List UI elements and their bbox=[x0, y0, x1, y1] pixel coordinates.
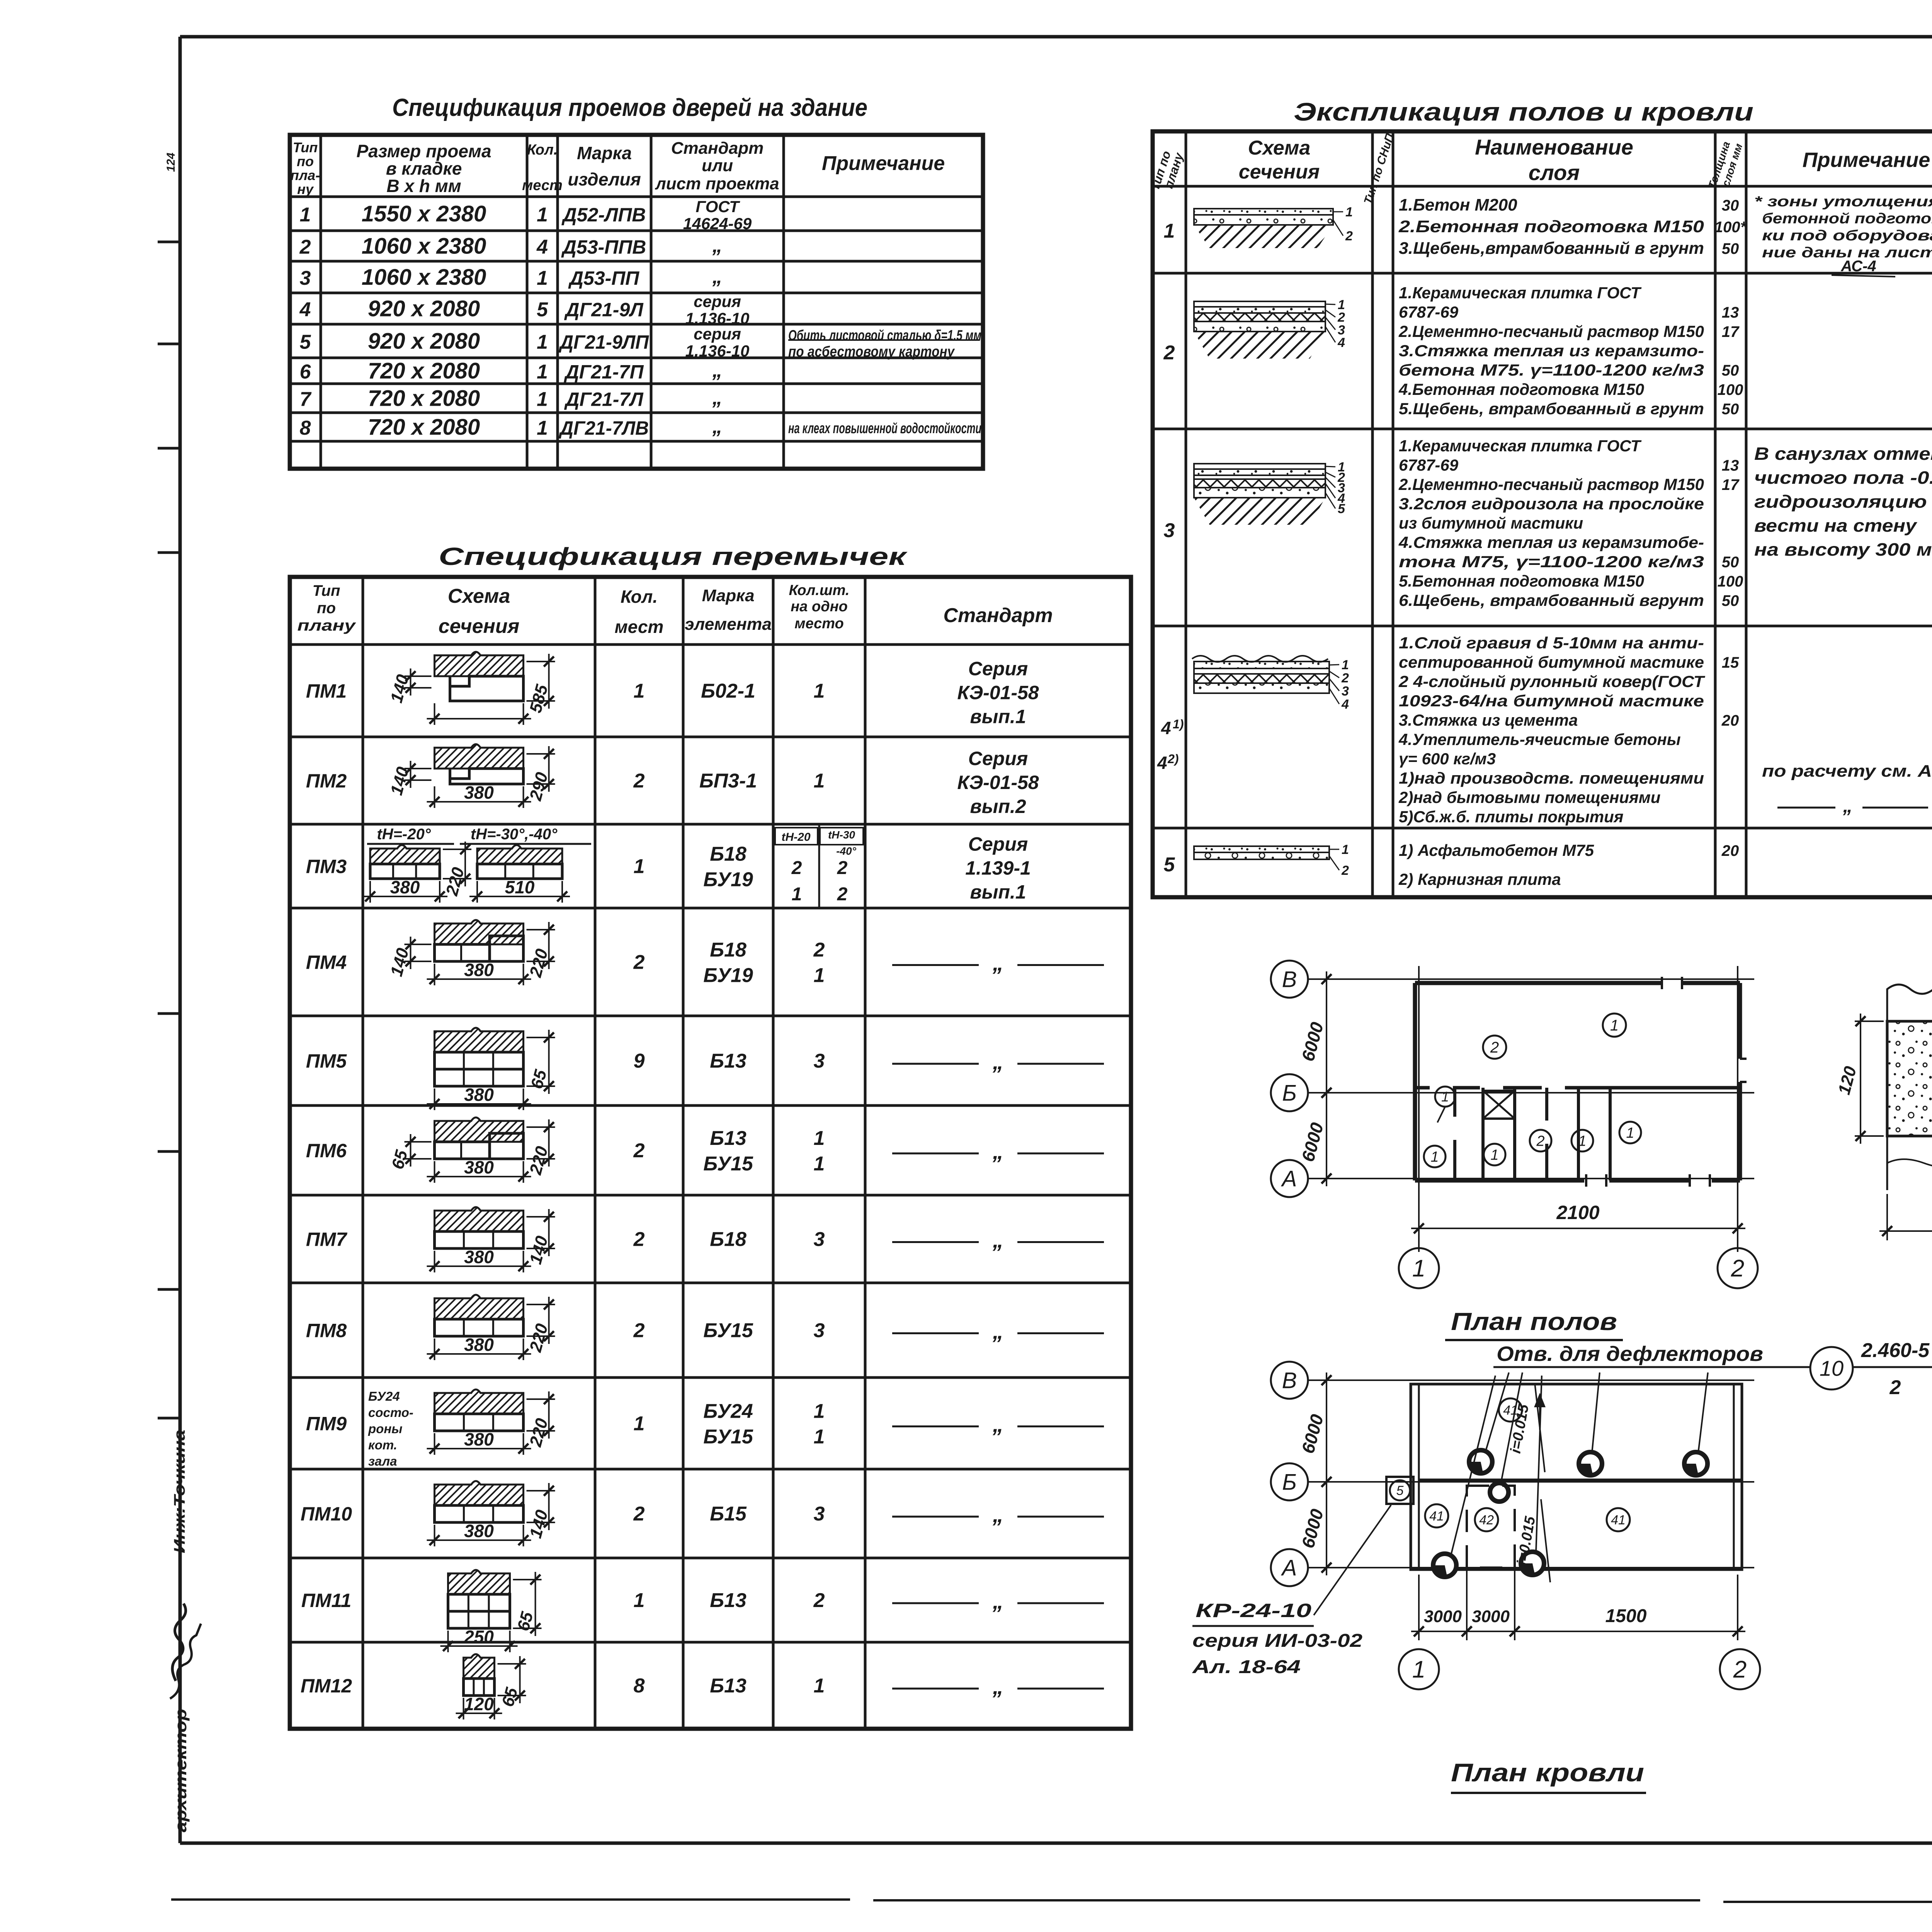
svg-text:1: 1 bbox=[1610, 1017, 1619, 1034]
svg-text:30: 30 bbox=[1722, 197, 1739, 214]
svg-text:Наименование: Наименование bbox=[1475, 135, 1633, 159]
svg-text:Стандарт: Стандарт bbox=[943, 604, 1053, 627]
svg-text:1: 1 bbox=[1164, 220, 1175, 242]
svg-text:6.Щебень, втрамбованный вгрунт: 6.Щебень, втрамбованный вгрунт bbox=[1399, 591, 1704, 609]
svg-text:ПМ2: ПМ2 bbox=[306, 770, 347, 792]
svg-text:ДГ21-7Л: ДГ21-7Л bbox=[564, 389, 644, 410]
svg-text:1) Асфальтобетон М75: 1) Асфальтобетон М75 bbox=[1399, 841, 1594, 859]
svg-text:3.2слоя гидроизола на прослойк: 3.2слоя гидроизола на прослойке bbox=[1399, 495, 1704, 513]
svg-text:ПМ6: ПМ6 bbox=[306, 1140, 347, 1162]
svg-text:50: 50 bbox=[1722, 554, 1739, 571]
floor plan partitions bbox=[1453, 1088, 1456, 1117]
svg-text:510: 510 bbox=[505, 877, 535, 897]
row 4 scheme bbox=[1192, 656, 1328, 662]
svg-text:15: 15 bbox=[1722, 654, 1739, 671]
svg-text:План полов: План полов bbox=[1451, 1308, 1617, 1335]
svg-text:9: 9 bbox=[634, 1050, 645, 1072]
svg-text:50: 50 bbox=[1722, 240, 1739, 257]
svg-text:20: 20 bbox=[1721, 712, 1739, 729]
svg-text:tН=-30°,-40°: tН=-30°,-40° bbox=[471, 826, 558, 843]
svg-text:мест: мест bbox=[615, 617, 664, 637]
svg-text:1: 1 bbox=[1412, 1656, 1425, 1683]
svg-text:3: 3 bbox=[300, 267, 311, 289]
svg-text:по: по bbox=[297, 153, 314, 169]
svg-text:5: 5 bbox=[1396, 1483, 1404, 1498]
svg-text:Д53-ППВ: Д53-ППВ bbox=[561, 236, 646, 258]
svg-text:„: „ bbox=[992, 1319, 1003, 1344]
svg-text:„: „ bbox=[712, 387, 723, 409]
svg-text:кот.: кот. bbox=[368, 1438, 397, 1452]
svg-text:чистого пола -0.020: чистого пола -0.020 bbox=[1754, 468, 1932, 488]
svg-text:2.Цементно-песчаный раствор М1: 2.Цементно-песчаный раствор М150 bbox=[1398, 322, 1704, 340]
svg-text:Схема: Схема bbox=[448, 585, 510, 607]
svg-text:1: 1 bbox=[814, 1127, 825, 1150]
PM3 qty sub-cells bbox=[818, 824, 820, 908]
svg-text:2.Цементно-песчаный раствор М1: 2.Цементно-песчаный раствор М150 bbox=[1398, 475, 1704, 493]
svg-text:1.Керамическая плитка ГОСТ: 1.Керамическая плитка ГОСТ bbox=[1399, 284, 1642, 302]
floor plan axis circles bbox=[1271, 961, 1308, 998]
svg-text:3.Стяжка из цемента: 3.Стяжка из цемента bbox=[1399, 711, 1578, 729]
svg-text:План кровли: План кровли bbox=[1451, 1758, 1644, 1787]
svg-text:бетонной подготов-: бетонной подготов- bbox=[1762, 211, 1932, 227]
svg-text:ГОСТ: ГОСТ bbox=[696, 197, 740, 216]
svg-text:Серия: Серия bbox=[968, 833, 1028, 855]
roof plan axis circles bbox=[1271, 1362, 1308, 1399]
svg-text:Примечание: Примечание bbox=[1803, 148, 1930, 172]
svg-text:50: 50 bbox=[1722, 401, 1739, 418]
svg-text:Отв. для дефлекторов: Отв. для дефлекторов bbox=[1497, 1342, 1763, 1366]
svg-text:3: 3 bbox=[814, 1320, 825, 1342]
svg-text:γ= 600 кг/м3: γ= 600 кг/м3 bbox=[1399, 750, 1496, 768]
svg-text:13: 13 bbox=[1722, 457, 1739, 474]
floor plan shaft cross bbox=[1483, 1091, 1515, 1119]
svg-text:Кол.: Кол. bbox=[527, 142, 558, 158]
svg-text:изделия: изделия bbox=[568, 169, 641, 189]
svg-text:720 х 2080: 720 х 2080 bbox=[368, 415, 480, 440]
svg-text:2: 2 bbox=[1163, 342, 1175, 364]
svg-text:на клеах повышенной водостойко: на клеах повышенной водостойкости bbox=[788, 420, 981, 437]
svg-text:В: В bbox=[1282, 1368, 1297, 1393]
svg-text:Кол.: Кол. bbox=[621, 587, 658, 607]
svg-text:Тип: Тип bbox=[313, 582, 340, 599]
left margin binding ticks bbox=[158, 241, 180, 243]
svg-text:ПМ5: ПМ5 bbox=[306, 1050, 347, 1072]
door row5 note underline bbox=[788, 339, 980, 341]
svg-text:1: 1 bbox=[634, 1413, 645, 1435]
svg-text:ПМ8: ПМ8 bbox=[306, 1320, 347, 1342]
svg-text:1060 х 2380: 1060 х 2380 bbox=[362, 265, 486, 290]
roof plan 5 block bbox=[1386, 1477, 1413, 1504]
svg-text:ДГ21-9Л: ДГ21-9Л bbox=[564, 299, 644, 321]
svg-text:14624-69: 14624-69 bbox=[683, 214, 752, 233]
svg-text:1: 1 bbox=[537, 417, 548, 439]
svg-text:6787-69: 6787-69 bbox=[1399, 303, 1459, 321]
svg-text:380: 380 bbox=[464, 960, 494, 980]
svg-text:мест: мест bbox=[522, 177, 563, 194]
svg-text:380: 380 bbox=[464, 782, 494, 803]
svg-text:на одно: на одно bbox=[791, 599, 848, 615]
svg-text:„: „ bbox=[992, 951, 1003, 975]
svg-text:слоя: слоя bbox=[1529, 160, 1580, 185]
svg-text:ДГ21-9ЛП: ДГ21-9ЛП bbox=[558, 332, 649, 353]
svg-text:1: 1 bbox=[634, 855, 645, 878]
svg-text:1: 1 bbox=[1626, 1125, 1634, 1141]
svg-text:Схема: Схема bbox=[1248, 137, 1310, 159]
svg-text:3: 3 bbox=[1164, 519, 1175, 542]
svg-text:124: 124 bbox=[165, 153, 177, 172]
roof plan outline bbox=[1411, 1384, 1742, 1570]
svg-text:БУ15: БУ15 bbox=[703, 1153, 753, 1175]
svg-text:БУ15: БУ15 bbox=[703, 1320, 753, 1342]
svg-text:5: 5 bbox=[537, 299, 548, 321]
svg-text:3: 3 bbox=[814, 1050, 825, 1072]
svg-text:2: 2 bbox=[299, 236, 311, 259]
svg-text:2.460-5: 2.460-5 bbox=[1861, 1339, 1930, 1362]
svg-text:Кол.шт.: Кол.шт. bbox=[789, 582, 850, 599]
svg-text:ДГ21-7П: ДГ21-7П bbox=[564, 361, 644, 383]
roof plan left dims 6000 bbox=[1326, 1372, 1327, 1490]
svg-text:50: 50 bbox=[1722, 592, 1739, 609]
svg-text:920 х 2080: 920 х 2080 bbox=[368, 329, 480, 354]
svg-text:Д53-ПП: Д53-ПП bbox=[568, 267, 639, 289]
svg-text:4: 4 bbox=[1341, 697, 1349, 712]
svg-text:1.136-10: 1.136-10 bbox=[685, 342, 750, 360]
svg-text:по: по bbox=[317, 600, 336, 617]
svg-text:920 х 2080: 920 х 2080 bbox=[368, 296, 480, 321]
svg-text:Б13: Б13 bbox=[710, 1675, 747, 1697]
detail 2 bottom break bbox=[1887, 1136, 1932, 1190]
svg-text:БУ24: БУ24 bbox=[703, 1400, 753, 1423]
circle 10 and 2.460-5 bbox=[1766, 1366, 1810, 1368]
svg-text:Б18: Б18 bbox=[710, 1228, 747, 1251]
svg-text:1: 1 bbox=[814, 1675, 825, 1697]
svg-text:1: 1 bbox=[634, 680, 645, 702]
svg-text:* зоны утолщения: * зоны утолщения bbox=[1754, 194, 1932, 210]
svg-text:Б13: Б13 bbox=[710, 1127, 747, 1150]
svg-text:ПМ12: ПМ12 bbox=[301, 1675, 352, 1697]
svg-text:2: 2 bbox=[633, 1503, 645, 1525]
svg-text:100: 100 bbox=[1718, 381, 1743, 398]
svg-text:380: 380 bbox=[390, 877, 420, 897]
svg-text:1: 1 bbox=[1430, 1149, 1439, 1165]
svg-text:380: 380 bbox=[464, 1157, 494, 1177]
svg-text:1: 1 bbox=[814, 1426, 825, 1448]
svg-text:БУ24: БУ24 bbox=[368, 1389, 400, 1403]
svg-text:или: или bbox=[702, 156, 733, 175]
svg-text:5: 5 bbox=[300, 331, 311, 354]
svg-text:1: 1 bbox=[537, 204, 548, 226]
svg-text:1.Керамическая плитка ГОСТ: 1.Керамическая плитка ГОСТ bbox=[1399, 437, 1642, 455]
svg-text:элемента: элемента bbox=[685, 615, 772, 634]
svg-text:1060 х 2380: 1060 х 2380 bbox=[362, 234, 486, 259]
svg-text:17: 17 bbox=[1722, 476, 1740, 493]
svg-text:КЭ-01-58: КЭ-01-58 bbox=[957, 682, 1039, 704]
svg-text:10923-64/на битумной мастике: 10923-64/на битумной мастике bbox=[1399, 692, 1704, 710]
svg-text:сечения: сечения bbox=[1239, 161, 1320, 183]
svg-text:1550 х 2380: 1550 х 2380 bbox=[362, 201, 486, 226]
svg-text:5: 5 bbox=[1164, 854, 1175, 876]
svg-text:2: 2 bbox=[1731, 1255, 1744, 1282]
svg-text:1: 1 bbox=[537, 331, 548, 354]
svg-text:лист проекта: лист проекта bbox=[655, 174, 779, 193]
svg-text:1: 1 bbox=[634, 1589, 645, 1612]
svg-text:Б: Б bbox=[1282, 1469, 1297, 1495]
svg-text:серия: серия bbox=[694, 293, 741, 311]
svg-text:А: А bbox=[1281, 1555, 1297, 1580]
svg-text:Б18: Б18 bbox=[710, 843, 747, 866]
svg-text:42: 42 bbox=[1479, 1513, 1494, 1527]
svg-text:БУ19: БУ19 bbox=[703, 869, 753, 891]
svg-text:1: 1 bbox=[1342, 658, 1349, 672]
door opening ticks bbox=[1661, 977, 1663, 989]
svg-text:2: 2 bbox=[633, 1228, 645, 1251]
svg-text:Б02-1: Б02-1 bbox=[701, 680, 755, 702]
svg-text:1)над производств. помещениями: 1)над производств. помещениями bbox=[1399, 769, 1704, 787]
svg-text:2: 2 bbox=[837, 884, 848, 905]
svg-text:4: 4 bbox=[1161, 718, 1171, 738]
svg-text:4: 4 bbox=[1337, 335, 1345, 350]
svg-text:септированной битумной мастике: септированной битумной мастике bbox=[1399, 653, 1704, 671]
svg-text:1500: 1500 bbox=[1605, 1606, 1647, 1626]
svg-text:„: „ bbox=[712, 359, 723, 382]
svg-text:tН=-20°: tН=-20° bbox=[377, 826, 431, 843]
roof plan deflector circles bbox=[1469, 1450, 1492, 1473]
svg-text:17: 17 bbox=[1722, 323, 1740, 340]
svg-text:„: „ bbox=[992, 1589, 1003, 1613]
svg-text:„: „ bbox=[992, 1049, 1003, 1074]
svg-text:2: 2 bbox=[633, 770, 645, 792]
svg-text:2: 2 bbox=[1889, 1376, 1901, 1399]
svg-text:2: 2 bbox=[1345, 229, 1353, 243]
svg-text:720 х 2080: 720 х 2080 bbox=[368, 359, 480, 384]
svg-text:1: 1 bbox=[300, 204, 311, 226]
svg-text:4: 4 bbox=[1157, 753, 1167, 773]
svg-text:tН-20: tН-20 bbox=[781, 831, 810, 844]
svg-text:5.Щебень, втрамбованный в грун: 5.Щебень, втрамбованный в грунт bbox=[1399, 400, 1704, 418]
svg-text:3000: 3000 bbox=[1424, 1607, 1462, 1626]
svg-text:ПМ9: ПМ9 bbox=[306, 1413, 347, 1435]
svg-text:Спецификация перемычек: Спецификация перемычек bbox=[439, 543, 908, 570]
svg-text:3.Стяжка теплая из керамзито-: 3.Стяжка теплая из керамзито- bbox=[1399, 342, 1704, 360]
svg-text:2: 2 bbox=[1341, 671, 1349, 685]
svg-text:2100: 2100 bbox=[1556, 1202, 1599, 1223]
svg-text:2: 2 bbox=[633, 1139, 645, 1162]
svg-text:ки под оборудова-: ки под оборудова- bbox=[1762, 228, 1932, 244]
svg-text:4: 4 bbox=[299, 299, 311, 321]
svg-text:4.Утеплитель-ячеистые бетоны: 4.Утеплитель-ячеистые бетоны bbox=[1398, 730, 1681, 748]
svg-text:по расчету см. АС-1: по расчету см. АС-1 bbox=[1762, 762, 1932, 781]
explication table grid bbox=[1153, 131, 1932, 897]
svg-text:2: 2 bbox=[1733, 1656, 1747, 1683]
svg-text:Б15: Б15 bbox=[710, 1503, 747, 1525]
svg-text:Примечание: Примечание bbox=[822, 152, 945, 175]
svg-text:АС-4: АС-4 bbox=[1840, 258, 1876, 275]
svg-text:1: 1 bbox=[1342, 842, 1349, 857]
svg-text:В: В bbox=[1282, 967, 1297, 992]
svg-text:1: 1 bbox=[1412, 1255, 1425, 1282]
svg-text:вести на стену: вести на стену bbox=[1754, 515, 1918, 536]
svg-text:бетона М75. γ=1100-1200 кг/м3: бетона М75. γ=1100-1200 кг/м3 bbox=[1399, 361, 1704, 379]
svg-text:2)над бытовыми помещениями: 2)над бытовыми помещениями bbox=[1398, 788, 1660, 806]
svg-text:„: „ bbox=[712, 265, 723, 288]
svg-text:сечения: сечения bbox=[439, 615, 520, 638]
svg-text:роны: роны bbox=[368, 1422, 402, 1436]
detail 2 dims bbox=[1855, 1020, 1884, 1022]
svg-text:20: 20 bbox=[1721, 842, 1739, 859]
svg-text:380: 380 bbox=[464, 1335, 494, 1355]
svg-text:1: 1 bbox=[814, 770, 825, 792]
svg-text:1.Бетон М200: 1.Бетон М200 bbox=[1399, 196, 1517, 214]
svg-text:по асбестовому картону: по асбестовому картону bbox=[788, 344, 955, 360]
svg-text:-40°: -40° bbox=[836, 845, 856, 857]
svg-text:10: 10 bbox=[1820, 1356, 1844, 1381]
svg-text:Б13: Б13 bbox=[710, 1589, 747, 1612]
svg-text:380: 380 bbox=[464, 1085, 494, 1105]
svg-text:БУ15: БУ15 bbox=[703, 1426, 753, 1448]
signatures bbox=[172, 1604, 186, 1681]
svg-text:13: 13 bbox=[1722, 304, 1739, 321]
svg-text:1: 1 bbox=[1441, 1089, 1449, 1105]
detail 2: concrete block with vent opening bbox=[1887, 985, 1932, 1021]
svg-text:1: 1 bbox=[537, 361, 548, 383]
svg-text:6787-69: 6787-69 bbox=[1399, 456, 1459, 474]
svg-text:„: „ bbox=[712, 415, 723, 438]
svg-text:1: 1 bbox=[814, 680, 825, 702]
svg-text:2: 2 bbox=[1536, 1133, 1544, 1149]
svg-text:41: 41 bbox=[1429, 1509, 1444, 1524]
svg-text:3.Щебень,втрамбованный в грунт: 3.Щебень,втрамбованный в грунт bbox=[1399, 239, 1704, 258]
svg-text:380: 380 bbox=[464, 1429, 494, 1449]
svg-text:пла-: пла- bbox=[291, 167, 320, 183]
svg-text:1: 1 bbox=[814, 964, 825, 987]
svg-text:ПМ1: ПМ1 bbox=[306, 680, 347, 702]
svg-text:100: 100 bbox=[1718, 573, 1743, 590]
svg-text:2: 2 bbox=[791, 858, 802, 878]
bottom paper edge dashed line bbox=[171, 1898, 850, 1901]
svg-text:вып.1: вып.1 bbox=[970, 881, 1026, 903]
svg-text:„: „ bbox=[712, 235, 723, 257]
svg-text:ПМ11: ПМ11 bbox=[301, 1590, 352, 1611]
svg-text:Экспликация полов и кровли: Экспликация полов и кровли bbox=[1294, 97, 1753, 126]
svg-text:вып.1: вып.1 bbox=[970, 706, 1026, 728]
svg-text:Спецификация проемов дверей на: Спецификация проемов дверей на здание bbox=[392, 94, 867, 121]
svg-text:Б: Б bbox=[1282, 1080, 1297, 1105]
svg-text:120: 120 bbox=[464, 1694, 494, 1714]
svg-text:из битумной мастики: из битумной мастики bbox=[1399, 514, 1583, 532]
svg-text:гидроизоляцию за-: гидроизоляцию за- bbox=[1754, 492, 1932, 512]
svg-text:5: 5 bbox=[1338, 502, 1345, 516]
svg-text:ПМ10: ПМ10 bbox=[301, 1503, 352, 1525]
svg-text:ДГ21-7ЛВ: ДГ21-7ЛВ bbox=[558, 417, 649, 439]
svg-text:1: 1 bbox=[1578, 1133, 1586, 1149]
svg-text:4.Бетонная подготовка М150: 4.Бетонная подготовка М150 bbox=[1398, 380, 1644, 398]
roof plan circled 41 42 bbox=[1499, 1398, 1522, 1422]
svg-text:7: 7 bbox=[300, 388, 312, 411]
svg-text:3: 3 bbox=[814, 1228, 825, 1251]
svg-text:3000: 3000 bbox=[1472, 1607, 1510, 1626]
svg-text:Ал. 18-64: Ал. 18-64 bbox=[1192, 1657, 1301, 1677]
svg-text:состо-: состо- bbox=[368, 1405, 413, 1420]
svg-text:2.Бетонная подготовка М150: 2.Бетонная подготовка М150 bbox=[1398, 217, 1704, 236]
roof plan bottom dims bbox=[1418, 1575, 1420, 1640]
floor plan bottom dim 2100 bbox=[1418, 1186, 1420, 1236]
svg-text:КЭ-01-58: КЭ-01-58 bbox=[957, 772, 1039, 793]
svg-text:4: 4 bbox=[536, 236, 548, 259]
svg-text:1): 1) bbox=[1173, 717, 1184, 731]
sheet frame border bbox=[180, 35, 1932, 39]
svg-text:ПМ3: ПМ3 bbox=[306, 856, 347, 878]
lintel table grid bbox=[290, 577, 1131, 1729]
svg-text:БУ19: БУ19 bbox=[703, 964, 753, 987]
svg-text:Обить листовой сталью δ=1.5 мм: Обить листовой сталью δ=1.5 мм bbox=[788, 328, 981, 344]
svg-text:Марка: Марка bbox=[577, 143, 632, 163]
svg-text:ПМ7: ПМ7 bbox=[306, 1229, 348, 1250]
floor plan axis lines bbox=[1308, 978, 1754, 980]
svg-text:2: 2 bbox=[837, 858, 848, 878]
svg-text:„: „ bbox=[992, 1502, 1003, 1527]
svg-text:БП3-1: БП3-1 bbox=[699, 770, 757, 792]
svg-text:на высоту 300 мм: на высоту 300 мм bbox=[1754, 539, 1932, 560]
svg-text:1: 1 bbox=[792, 884, 802, 905]
svg-text:А: А bbox=[1281, 1166, 1297, 1191]
svg-text:серия: серия bbox=[694, 325, 741, 343]
door spec table grid bbox=[290, 135, 983, 469]
svg-text:2: 2 bbox=[633, 951, 645, 974]
svg-text:Стандарт: Стандарт bbox=[671, 139, 764, 158]
svg-text:3: 3 bbox=[1342, 684, 1349, 699]
svg-text:1: 1 bbox=[1490, 1147, 1498, 1163]
svg-text:ПМ4: ПМ4 bbox=[306, 952, 347, 973]
svg-text:„: „ bbox=[1843, 795, 1853, 816]
svg-text:5)Сб.ж.б. плиты покрытия: 5)Сб.ж.б. плиты покрытия bbox=[1399, 808, 1623, 826]
roof plan dashed rect bbox=[1467, 1486, 1515, 1568]
svg-text:380: 380 bbox=[464, 1247, 494, 1267]
svg-text:плану: плану bbox=[298, 617, 356, 634]
svg-text:Серия: Серия bbox=[968, 748, 1028, 769]
svg-text:Инж:Точкина: Инж:Точкина bbox=[171, 1430, 188, 1553]
svg-text:2) Карнизная плита: 2) Карнизная плита bbox=[1398, 870, 1561, 888]
svg-text:зала: зала bbox=[368, 1454, 397, 1468]
svg-text:1: 1 bbox=[537, 267, 548, 289]
svg-text:серия ИИ-03-02: серия ИИ-03-02 bbox=[1192, 1631, 1362, 1651]
svg-text:2: 2 bbox=[1341, 863, 1349, 878]
svg-text:2: 2 bbox=[813, 1589, 825, 1612]
svg-text:„: „ bbox=[992, 1228, 1003, 1252]
svg-text:tН-30: tН-30 bbox=[828, 829, 855, 841]
svg-text:2: 2 bbox=[813, 939, 825, 961]
svg-text:2: 2 bbox=[1490, 1039, 1499, 1056]
svg-text:100*: 100* bbox=[1714, 219, 1747, 236]
room number circles floor plan bbox=[1603, 1014, 1626, 1037]
svg-text:3: 3 bbox=[814, 1503, 825, 1525]
svg-text:„: „ bbox=[992, 1139, 1003, 1163]
svg-text:Б13: Б13 bbox=[710, 1050, 747, 1072]
svg-text:1: 1 bbox=[1345, 205, 1353, 219]
svg-text:Д52-ЛПВ: Д52-ЛПВ bbox=[561, 204, 646, 226]
svg-text:2 4-слойный рулонный ковер(ГОС: 2 4-слойный рулонный ковер(ГОСТ bbox=[1398, 672, 1706, 690]
svg-text:место: место bbox=[794, 616, 844, 632]
svg-text:50: 50 bbox=[1722, 362, 1739, 379]
roof plan axis lines bbox=[1308, 1379, 1754, 1381]
svg-text:8: 8 bbox=[634, 1675, 645, 1697]
svg-text:1: 1 bbox=[814, 1153, 825, 1175]
svg-text:ну: ну bbox=[297, 181, 314, 197]
svg-text:1: 1 bbox=[814, 1400, 825, 1423]
svg-text:Марка: Марка bbox=[702, 586, 755, 605]
svg-text:тона М75, γ=1100-1200 кг/м3: тона М75, γ=1100-1200 кг/м3 bbox=[1399, 553, 1704, 571]
svg-text:Б18: Б18 bbox=[710, 939, 747, 961]
svg-text:2): 2) bbox=[1167, 752, 1179, 766]
